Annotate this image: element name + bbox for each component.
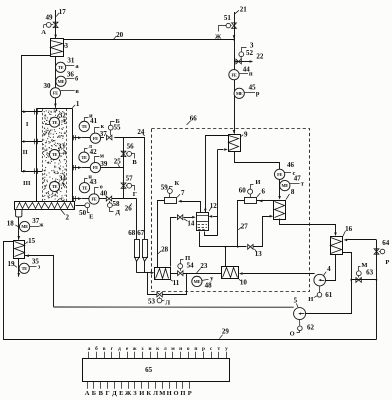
svg-text:62: 62 bbox=[307, 323, 315, 331]
svg-text:З: З bbox=[250, 41, 254, 49]
svg-text:49: 49 bbox=[46, 14, 54, 22]
adsorber column 68 bbox=[135, 240, 140, 258]
sensor TE 32 in column, signal г bbox=[50, 117, 60, 127]
branch wire with valves 56 57 bbox=[123, 138, 125, 199]
svg-text:TE: TE bbox=[52, 184, 58, 189]
svg-text:39: 39 bbox=[100, 160, 108, 168]
pump 4 motor 61 (signal Н) bbox=[319, 286, 321, 293]
svg-text:65: 65 bbox=[145, 366, 153, 374]
svg-text:с: с bbox=[210, 346, 213, 352]
svg-text:FE: FE bbox=[53, 90, 58, 95]
svg-text:ME: ME bbox=[194, 279, 201, 284]
heat exchanger 3 bbox=[51, 39, 64, 57]
svg-text:37: 37 bbox=[32, 217, 40, 225]
svg-text:57: 57 bbox=[126, 174, 134, 182]
svg-text:Е: Е bbox=[89, 213, 93, 220]
wire row 3 line 26 bbox=[82, 198, 89, 200]
svg-text:29: 29 bbox=[222, 328, 230, 336]
svg-text:43: 43 bbox=[90, 178, 98, 186]
svg-text:и: и bbox=[148, 346, 151, 352]
sensor FE 44, signal п bbox=[229, 70, 239, 80]
svg-text:О: О bbox=[173, 390, 178, 397]
wire HX11 to HX10 with valve 54 (signal П) bbox=[170, 273, 177, 275]
wire HX15 left to bottom return line 29 bbox=[4, 242, 14, 340]
svg-text:27: 27 bbox=[241, 222, 249, 230]
svg-text:ж: ж bbox=[39, 223, 44, 229]
wire tank 12 bottom right drain bbox=[205, 232, 218, 236]
svg-text:I: I bbox=[26, 121, 29, 128]
valve 14 feed into tank 12 bbox=[171, 218, 177, 267]
svg-text:25: 25 bbox=[114, 158, 122, 166]
svg-text:Н: Н bbox=[167, 390, 172, 397]
svg-text:б: б bbox=[75, 76, 79, 83]
svg-text:61: 61 bbox=[325, 291, 333, 299]
heat exchanger 15 bbox=[14, 241, 25, 259]
svg-text:21: 21 bbox=[240, 6, 248, 14]
svg-text:22: 22 bbox=[256, 52, 264, 60]
dashed control system boundary 66 bbox=[152, 129, 310, 292]
svg-text:о: о bbox=[187, 346, 190, 352]
wire HX15 bottom product out bbox=[18, 258, 20, 277]
mixer 6 with valve 60 (signal И) bbox=[245, 198, 257, 204]
wire pump 5 suction from HX15 loop bbox=[53, 306, 293, 308]
svg-text:П: П bbox=[180, 390, 185, 397]
svg-text:51: 51 bbox=[224, 14, 232, 22]
column outlet stub to FE39 row bbox=[72, 167, 81, 169]
label 17 leader bbox=[56, 13, 59, 17]
svg-text:TE: TE bbox=[52, 120, 58, 125]
sensor TE 35, signal з bbox=[19, 263, 29, 273]
wire line 28 separator 7 to HX11 bbox=[158, 201, 165, 268]
svg-text:9: 9 bbox=[244, 131, 248, 139]
wire: HX3 bottom outlet down into column top bbox=[55, 56, 57, 107]
pump 4 bbox=[314, 274, 326, 286]
wire from pump 5 into HX15 right bbox=[25, 256, 54, 307]
svg-text:1: 1 bbox=[76, 100, 80, 108]
svg-text:е: е bbox=[63, 183, 66, 189]
svg-text:И: И bbox=[139, 390, 144, 397]
svg-text:М: М bbox=[159, 390, 165, 397]
svg-text:46: 46 bbox=[287, 161, 295, 169]
wire HX16 bottom to pump 4 bbox=[326, 255, 336, 281]
svg-text:FE: FE bbox=[93, 136, 98, 141]
svg-text:FE: FE bbox=[91, 197, 96, 202]
svg-text:TE: TE bbox=[52, 152, 58, 157]
svg-text:п: п bbox=[194, 346, 197, 352]
svg-text:ME: ME bbox=[21, 224, 28, 229]
svg-text:д: д bbox=[63, 150, 66, 156]
controller unit 65 bbox=[83, 359, 230, 382]
svg-text:48: 48 bbox=[205, 281, 213, 289]
svg-text:н: н bbox=[179, 346, 182, 352]
svg-text:66: 66 bbox=[190, 114, 198, 122]
svg-text:К: К bbox=[146, 390, 151, 397]
svg-text:18: 18 bbox=[7, 220, 15, 228]
wire chute down to HX15 bbox=[18, 217, 20, 240]
svg-text:Г: Г bbox=[133, 191, 137, 198]
sensor FE 40, signal о bbox=[89, 194, 99, 204]
branch line 22 with valve 52 (signal З) bbox=[234, 61, 250, 63]
svg-text:а: а bbox=[75, 63, 79, 70]
wire mixer 6 to exchanger 8 bbox=[257, 200, 274, 202]
svg-text:Р: Р bbox=[385, 259, 389, 266]
sensor ME 48 on line 23, signal у bbox=[192, 276, 202, 286]
svg-text:Г: Г bbox=[106, 390, 110, 397]
wire pump 4 discharge to HX10 bbox=[243, 273, 315, 275]
svg-text:63: 63 bbox=[366, 268, 374, 276]
svg-text:67: 67 bbox=[137, 229, 145, 237]
svg-text:е: е bbox=[126, 346, 129, 352]
wire HX9 bottom to FE46 and exchanger 8 bbox=[235, 152, 280, 170]
svg-text:п: п bbox=[249, 71, 253, 78]
svg-text:ME: ME bbox=[282, 183, 289, 188]
sensor TE 33 in column, signal д bbox=[50, 150, 60, 160]
svg-text:64: 64 bbox=[382, 239, 390, 247]
wire row 1 to line 24 bbox=[82, 137, 91, 139]
svg-text:г: г bbox=[111, 346, 114, 352]
svg-text:FE: FE bbox=[277, 172, 282, 177]
svg-text:Ж: Ж bbox=[215, 33, 222, 40]
svg-text:16: 16 bbox=[345, 225, 353, 233]
svg-text:у: у bbox=[225, 346, 228, 352]
svg-text:59: 59 bbox=[161, 184, 169, 192]
svg-text:Д: Д bbox=[116, 209, 121, 216]
screw conveyor 2 bbox=[15, 202, 75, 210]
heat exchanger 16 bbox=[331, 237, 343, 255]
svg-text:12: 12 bbox=[210, 202, 218, 210]
wire HX16 to pump 5 bbox=[306, 253, 352, 314]
svg-text:24: 24 bbox=[137, 128, 145, 136]
svg-text:Б: Б bbox=[92, 390, 96, 397]
svg-text:56: 56 bbox=[127, 142, 135, 150]
valve 57 (signal Г) bbox=[121, 183, 126, 186]
wire line 27 to mixer 6 bbox=[238, 201, 245, 247]
heat exchanger 11 bbox=[155, 268, 171, 280]
svg-text:17: 17 bbox=[59, 8, 67, 16]
svg-text:в: в bbox=[75, 88, 79, 95]
valve 56 (signal В) bbox=[121, 151, 126, 154]
wire row 2 line 25 bbox=[82, 167, 91, 169]
sensor TE 31, signal а bbox=[55, 62, 65, 72]
svg-text:54: 54 bbox=[187, 261, 195, 269]
svg-text:TE: TE bbox=[22, 266, 28, 271]
svg-text:м: м bbox=[100, 153, 104, 159]
svg-text:ME: ME bbox=[236, 91, 243, 96]
sensor FE 39, signal м bbox=[90, 162, 100, 172]
svg-text:3: 3 bbox=[64, 42, 68, 50]
sensor ME 45, signal р bbox=[234, 88, 244, 98]
svg-text:ж: ж bbox=[133, 346, 137, 352]
svg-text:ME: ME bbox=[58, 79, 65, 84]
column outlet stub to FE37 row bbox=[72, 137, 81, 139]
svg-text:55: 55 bbox=[114, 124, 122, 132]
svg-text:в: в bbox=[103, 346, 106, 352]
wire tank 12 right recirculation port bbox=[213, 216, 218, 218]
wire bottom return line 29 bbox=[3, 339, 376, 341]
inlet stub I bbox=[21, 111, 42, 113]
svg-text:З: З bbox=[133, 390, 137, 397]
sensor ME 37 on discharge, signal ж bbox=[19, 221, 29, 231]
svg-text:з: з bbox=[141, 346, 143, 352]
sensor FE 46, signal с bbox=[274, 169, 284, 179]
svg-text:г: г bbox=[63, 118, 66, 124]
svg-text:р: р bbox=[202, 346, 205, 352]
svg-text:42: 42 bbox=[90, 148, 98, 156]
wire riser from tank 12 to HX9 left bottom bbox=[217, 150, 219, 236]
svg-text:Л: Л bbox=[153, 390, 158, 397]
svg-text:52: 52 bbox=[246, 49, 254, 57]
svg-text:6: 6 bbox=[262, 187, 266, 195]
inlet stub II bbox=[21, 141, 42, 143]
svg-text:35: 35 bbox=[32, 258, 40, 266]
svg-text:60: 60 bbox=[239, 187, 247, 195]
discharge chute from conveyor bbox=[16, 209, 22, 217]
svg-text:8: 8 bbox=[291, 188, 295, 196]
svg-text:а: а bbox=[88, 346, 91, 352]
svg-text:13: 13 bbox=[255, 250, 263, 258]
svg-text:5: 5 bbox=[294, 296, 298, 304]
valve 63 (signal М) on crossover bbox=[351, 279, 376, 281]
svg-text:37: 37 bbox=[100, 130, 108, 138]
svg-text:58: 58 bbox=[113, 200, 121, 208]
wire: line 20 from HX3 to main riser bbox=[63, 39, 234, 41]
wire: HX3 left outlet down to column inlets manifold bbox=[22, 56, 51, 172]
svg-text:Е: Е bbox=[119, 390, 123, 397]
wire tank 12 top vapor to separator 7 bbox=[182, 202, 201, 213]
valve 55 (signal Б) bbox=[107, 135, 110, 140]
svg-text:л: л bbox=[164, 346, 167, 352]
svg-text:Ж: Ж bbox=[125, 390, 132, 397]
wire: main riser 21 bbox=[234, 12, 236, 134]
svg-text:Д: Д bbox=[112, 390, 117, 397]
sensor TE 41, signal и bbox=[79, 121, 89, 131]
heat exchanger 8 bbox=[274, 201, 286, 220]
svg-text:28: 28 bbox=[161, 246, 169, 254]
label 1 leader bbox=[72, 105, 75, 108]
svg-text:Н: Н bbox=[308, 296, 313, 303]
svg-text:41: 41 bbox=[90, 117, 98, 125]
svg-text:TE: TE bbox=[81, 155, 87, 160]
svg-text:м: м bbox=[171, 346, 175, 352]
sensor ME 36, signal б bbox=[56, 76, 66, 86]
svg-text:TE: TE bbox=[82, 124, 88, 129]
svg-text:7: 7 bbox=[181, 189, 185, 197]
separator 7 with valve 59 (signal К) bbox=[165, 198, 177, 204]
wire HX10 top to flash line bbox=[225, 247, 227, 267]
svg-text:К: К bbox=[175, 180, 180, 187]
adsorber column 67 bbox=[143, 240, 148, 258]
svg-text:19: 19 bbox=[8, 260, 16, 268]
sensor FE 30, signal в bbox=[50, 88, 60, 98]
controller 65 input pins а-у bbox=[88, 352, 90, 358]
svg-text:И: И bbox=[255, 179, 260, 186]
svg-text:В: В bbox=[132, 159, 137, 166]
svg-text:TE: TE bbox=[82, 185, 88, 190]
svg-text:А: А bbox=[85, 390, 90, 397]
svg-text:б: б bbox=[95, 345, 98, 352]
svg-text:14: 14 bbox=[187, 219, 195, 227]
svg-text:Р: Р bbox=[188, 390, 192, 397]
wire tank 12 drain line with valve 13 bbox=[200, 232, 247, 247]
valve 49 (control valve, signal А) bbox=[53, 22, 58, 25]
svg-text:т: т bbox=[301, 181, 305, 188]
inlet stub III bbox=[21, 171, 42, 173]
svg-text:15: 15 bbox=[28, 237, 36, 245]
wire columns bottoms to HX11 left bbox=[137, 272, 151, 274]
sensor TE 43, signal н bbox=[79, 183, 89, 193]
svg-text:11: 11 bbox=[173, 279, 180, 287]
wire line 24 down to column 67 bbox=[144, 138, 146, 239]
svg-text:4: 4 bbox=[327, 265, 331, 273]
svg-text:В: В bbox=[99, 390, 104, 397]
valve 51 (signal Ж) bbox=[232, 23, 237, 26]
svg-text:30: 30 bbox=[44, 82, 52, 90]
svg-text:10: 10 bbox=[240, 279, 248, 287]
svg-text:23: 23 bbox=[200, 262, 208, 270]
controller 65 output pins А-Р bbox=[87, 381, 89, 389]
heat exchanger 9 bbox=[229, 135, 241, 152]
svg-text:Л: Л bbox=[165, 299, 170, 306]
svg-text:А: А bbox=[41, 29, 46, 36]
sensor TE 34 in column, signal е bbox=[50, 182, 60, 192]
conveyor drive 50 (signal Е) bbox=[75, 205, 85, 207]
valve 58 (signal Д) bbox=[106, 196, 109, 201]
svg-text:т: т bbox=[217, 346, 220, 352]
svg-text:50: 50 bbox=[79, 209, 87, 217]
wire HX9 left top to tank 12 top bbox=[206, 136, 229, 213]
svg-text:31: 31 bbox=[67, 57, 75, 65]
column 1 packing stipple bbox=[43, 109, 66, 201]
pump 5 bbox=[294, 308, 306, 320]
svg-text:р: р bbox=[256, 90, 260, 97]
pump 5 motor 62 (signal О) bbox=[299, 320, 301, 326]
svg-text:34: 34 bbox=[59, 175, 67, 183]
svg-text:д: д bbox=[118, 346, 121, 352]
heat exchanger 10 bbox=[222, 267, 239, 279]
svg-text:20: 20 bbox=[116, 31, 124, 39]
svg-text:О: О bbox=[290, 331, 295, 338]
svg-text:FE: FE bbox=[231, 72, 236, 77]
wire exchanger 8 bottom to HX16 top bbox=[280, 219, 336, 233]
wire: feed line 17 into valve 49 and heat exchanger 3 bbox=[55, 10, 57, 39]
column 1 inner dashed lining bbox=[42, 109, 44, 202]
svg-text:TE: TE bbox=[58, 65, 64, 70]
svg-text:к: к bbox=[156, 346, 160, 352]
wire return line into HX16 right with valve 64 (signal Р) bbox=[347, 239, 376, 241]
tank 12 (flash drum with liquid level) bbox=[197, 213, 209, 231]
column outlet stub to FE40 row bbox=[72, 198, 81, 200]
svg-text:68: 68 bbox=[128, 229, 136, 237]
svg-text:2: 2 bbox=[65, 214, 69, 222]
column 1 vessel walls bbox=[36, 108, 38, 202]
wire blowdown through valve 53 (signal Л) bbox=[148, 273, 157, 295]
sensor FE 37, signal к bbox=[90, 133, 100, 143]
svg-text:II: II bbox=[23, 149, 29, 156]
svg-text:53: 53 bbox=[148, 297, 156, 305]
sensor TE 42, signal л bbox=[79, 152, 89, 162]
svg-text:III: III bbox=[23, 180, 31, 187]
svg-text:26: 26 bbox=[125, 205, 133, 213]
svg-text:FE: FE bbox=[93, 165, 98, 170]
svg-text:36: 36 bbox=[67, 71, 75, 79]
sensor ME 47, signal т bbox=[280, 180, 290, 190]
